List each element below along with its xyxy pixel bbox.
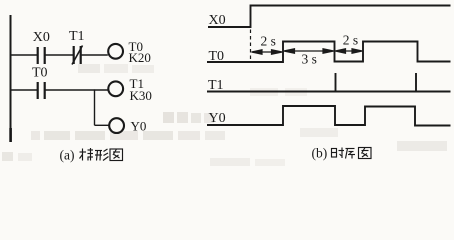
svg-text:2 s: 2 s — [343, 32, 358, 47]
svg-text:Y0: Y0 — [209, 111, 226, 126]
coil T0 — [108, 44, 123, 59]
svg-text:K30: K30 — [130, 88, 152, 103]
wire X0 to T1 contact — [46, 54, 74, 56]
contact X0 — [38, 47, 45, 64]
arrow 2s second — [335, 49, 362, 54]
waveform Y0 — [207, 106, 451, 126]
hanzi 梯 — [80, 148, 94, 161]
coil Y0 — [109, 118, 124, 133]
wire rung1 rail to X0 contact — [10, 54, 37, 56]
svg-text:3 s: 3 s — [302, 52, 317, 67]
hanzi 时 — [332, 148, 345, 159]
svg-text:(a): (a) — [60, 148, 75, 163]
contact T0 — [38, 82, 45, 99]
hanzi 序 — [346, 149, 356, 159]
hanzi 形 — [95, 149, 109, 161]
svg-text:Y0: Y0 — [131, 119, 147, 134]
svg-text:T1: T1 — [69, 29, 85, 44]
wire T0 contact to coil T1 — [46, 89, 109, 91]
branch vertical wire — [94, 89, 96, 125]
coil T1 — [108, 81, 123, 96]
T1 pulse 2 — [415, 73, 417, 92]
svg-text:X0: X0 — [209, 13, 226, 28]
waveform T1 baseline — [207, 91, 451, 93]
faint scan bleed marks — [2, 64, 447, 166]
wire T1 to coil T0 — [82, 54, 108, 56]
hanzi 图 — [110, 149, 123, 161]
svg-text:T0: T0 — [32, 66, 48, 81]
wire branch to coil Y0 — [95, 124, 110, 126]
contact T1 (normally closed) — [72, 46, 83, 65]
svg-text:X0: X0 — [33, 30, 50, 45]
waveform T0 — [207, 42, 451, 63]
T1 pulse 1 — [335, 73, 337, 92]
arrow 2s first — [252, 50, 283, 55]
left power rail — [10, 15, 12, 142]
dashed edge line — [250, 30, 252, 62]
wire rung2 rail to T0 contact — [10, 89, 37, 91]
waveform X0 — [208, 6, 451, 28]
arrow 3s — [284, 49, 334, 54]
hanzi 图 — [359, 148, 372, 159]
svg-text:2 s: 2 s — [261, 33, 276, 48]
svg-text:K20: K20 — [129, 50, 151, 65]
svg-text:(b): (b) — [312, 146, 328, 161]
